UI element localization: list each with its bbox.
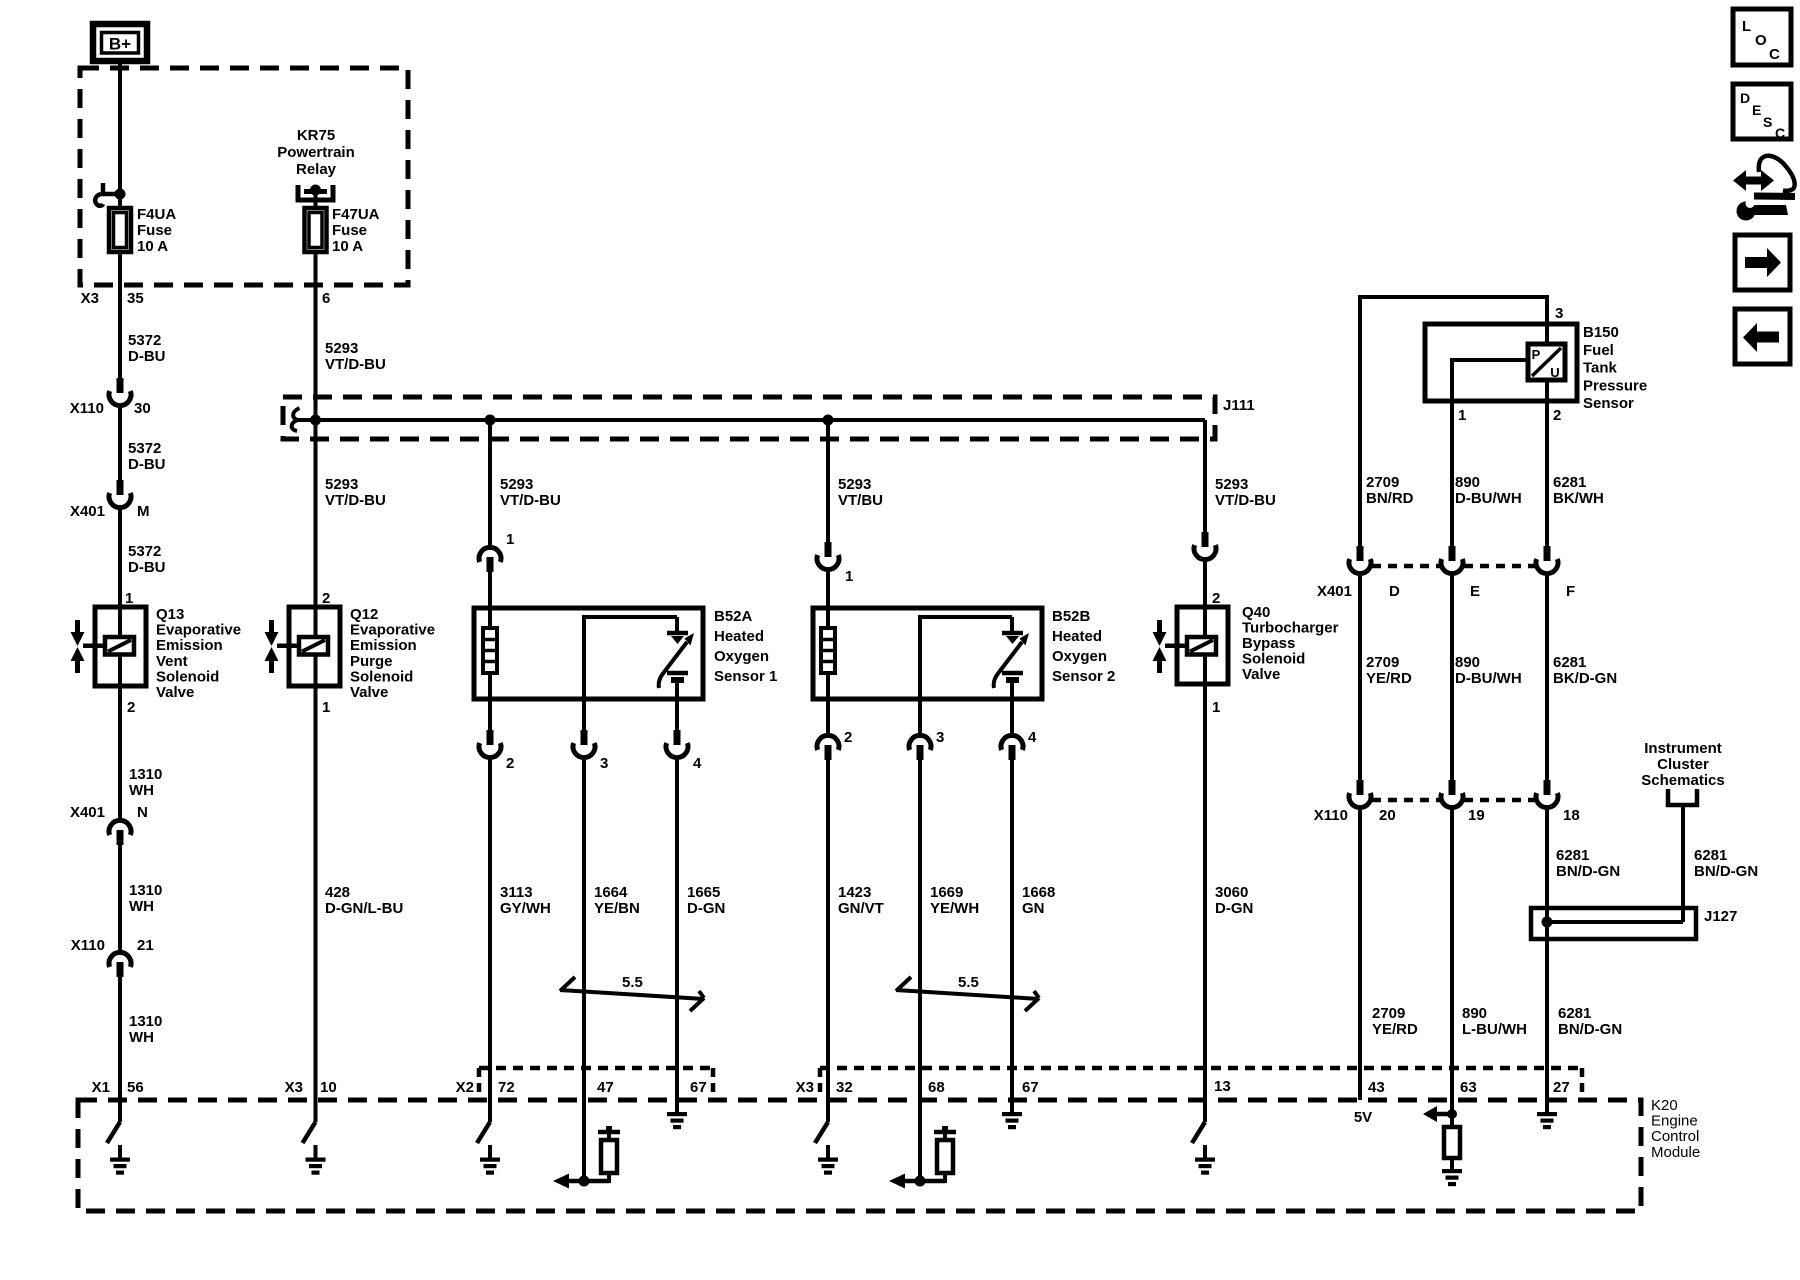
ECM internal switch to ground (pin 32): [826, 1100, 830, 1122]
svg-text:5293: 5293: [1215, 476, 1248, 493]
connector X401 pin M: [117, 480, 124, 495]
svg-text:D-BU: D-BU: [128, 456, 166, 473]
svg-text:O: O: [1755, 32, 1767, 49]
B52A sense cell symbol: [667, 631, 688, 636]
svg-text:Fuse: Fuse: [332, 222, 367, 239]
connector X401 pin E: [1449, 546, 1456, 561]
svg-text:6281: 6281: [1556, 847, 1589, 864]
J111 internal bus wire: [297, 418, 1205, 422]
svg-text:WH: WH: [129, 782, 154, 799]
wire 1664 YE/BN B52A-3 to ECM 47: [582, 759, 586, 1100]
svg-text:X1: X1: [92, 1079, 110, 1096]
svg-text:5372: 5372: [128, 440, 161, 457]
svg-text:6281: 6281: [1694, 847, 1727, 864]
B150 internal wiring pin 1: [1450, 358, 1454, 401]
junction dot KR75 feed: [310, 415, 321, 426]
wires X110 down to ECM: [1358, 809, 1362, 1100]
svg-text:2: 2: [1212, 590, 1220, 607]
wires X401 to X110: [1358, 575, 1362, 780]
fuse F47UA 10A: [305, 208, 327, 252]
svg-text:D: D: [1389, 583, 1400, 600]
svg-text:2709: 2709: [1372, 1005, 1405, 1022]
svg-text:D: D: [1740, 90, 1750, 106]
svg-text:72: 72: [498, 1079, 515, 1096]
svg-text:X110: X110: [1314, 807, 1348, 824]
svg-text:Q13: Q13: [156, 606, 184, 623]
svg-text:890: 890: [1455, 474, 1480, 491]
junction dot B52B branch: [823, 415, 834, 426]
svg-text:5293: 5293: [325, 340, 358, 357]
svg-text:Evaporative: Evaporative: [350, 622, 435, 639]
ECM internal switch to ground (pin 72): [488, 1100, 492, 1122]
ECM internal 5V ref resistor to ground (pin 63): [1450, 1100, 1454, 1127]
svg-text:6281: 6281: [1553, 654, 1586, 671]
svg-text:2709: 2709: [1366, 474, 1399, 491]
connector X110 pin 30: [117, 378, 124, 393]
svg-text:2: 2: [844, 729, 852, 746]
svg-text:VT/D-BU: VT/D-BU: [325, 492, 386, 509]
svg-text:Fuel: Fuel: [1583, 342, 1614, 359]
ECM internal ground (pin 27): [1545, 1100, 1549, 1113]
svg-text:Valve: Valve: [350, 684, 388, 701]
svg-text:3: 3: [1555, 305, 1563, 322]
icon vehicle data double arrow: [1744, 177, 1764, 185]
X401 row dashed links: [1372, 564, 1440, 569]
svg-text:VT/D-BU: VT/D-BU: [1215, 492, 1276, 509]
svg-text:Emission: Emission: [156, 637, 223, 654]
module K20 engine control module (dashed): [78, 1100, 1641, 1211]
svg-text:5V: 5V: [1354, 1109, 1372, 1126]
svg-text:GY/WH: GY/WH: [500, 900, 551, 917]
svg-text:D-GN: D-GN: [687, 900, 725, 917]
solenoid Q12 evaporative emission purge solenoid valve: [289, 607, 340, 686]
svg-text:5.5: 5.5: [958, 974, 979, 991]
B52B sense cell symbol: [1002, 631, 1023, 636]
svg-text:1310: 1310: [129, 766, 162, 783]
connector B52B pin 3: [918, 699, 922, 734]
relay KR75 contact bracket: [298, 185, 333, 200]
twisted pair marker 5.5 (B52B): [896, 990, 1039, 999]
icon forward arrow box: [1735, 235, 1790, 290]
ECM internal switch to ground (pin 56): [118, 1100, 122, 1122]
svg-text:6281: 6281: [1558, 1005, 1591, 1022]
svg-text:D-GN/L-BU: D-GN/L-BU: [325, 900, 403, 917]
svg-text:5293: 5293: [838, 476, 871, 493]
wire 5293 VT/D-BU fuse F47UA to J111: [314, 252, 318, 397]
svg-text:L: L: [1742, 18, 1751, 35]
svg-text:Turbocharger: Turbocharger: [1242, 620, 1339, 637]
svg-text:B52A: B52A: [714, 608, 753, 625]
splice pack J111 (dashed): [283, 397, 1215, 439]
svg-text:2: 2: [127, 699, 135, 716]
svg-text:Valve: Valve: [156, 684, 194, 701]
svg-text:U: U: [1550, 365, 1559, 380]
wire 1665 D-GN B52A-4 to ECM 67: [675, 759, 679, 1100]
svg-text:1: 1: [1458, 407, 1466, 424]
svg-text:2: 2: [1553, 407, 1561, 424]
ECM internal ground (pin 67): [675, 1100, 679, 1113]
svg-text:1310: 1310: [129, 882, 162, 899]
svg-text:35: 35: [127, 290, 144, 307]
wire 1310 WH X110 to ECM X1 56: [118, 977, 122, 1100]
wire 5293 VT/D-BU J111 to Q40: [1203, 420, 1207, 532]
solenoid Q40 turbocharger bypass solenoid valve: [1177, 607, 1228, 684]
svg-text:B150: B150: [1583, 324, 1619, 341]
solenoid Q13 evaporative emission vent solenoid valve: [95, 607, 146, 686]
svg-text:3: 3: [600, 755, 608, 772]
svg-text:13: 13: [1214, 1078, 1231, 1095]
svg-text:30: 30: [134, 400, 151, 417]
svg-text:2709: 2709: [1366, 654, 1399, 671]
wire 5372 D-BU X401 to Q13: [118, 509, 122, 607]
svg-text:GN/VT: GN/VT: [838, 900, 884, 917]
icon back arrow box: [1735, 309, 1790, 364]
J111 splice squiggle: [292, 408, 300, 431]
svg-text:YE/RD: YE/RD: [1366, 670, 1412, 687]
svg-text:27: 27: [1553, 1079, 1570, 1096]
svg-text:X3: X3: [285, 1079, 303, 1096]
svg-text:1: 1: [506, 531, 514, 548]
fuse F4UA 10A: [109, 208, 131, 252]
svg-text:BK/WH: BK/WH: [1553, 490, 1604, 507]
wire relay to fuse F47UA: [314, 190, 318, 208]
svg-text:Cluster: Cluster: [1657, 756, 1709, 773]
svg-text:5293: 5293: [500, 476, 533, 493]
splice tap in fuse block: [101, 183, 106, 193]
svg-text:10: 10: [320, 1079, 337, 1096]
svg-text:56: 56: [127, 1079, 144, 1096]
svg-text:Fuse: Fuse: [137, 222, 172, 239]
svg-text:BK/D-GN: BK/D-GN: [1553, 670, 1617, 687]
svg-text:3060: 3060: [1215, 884, 1248, 901]
svg-text:M: M: [137, 503, 150, 520]
svg-text:18: 18: [1563, 807, 1580, 824]
svg-text:C: C: [1775, 125, 1785, 141]
svg-text:F: F: [1566, 583, 1575, 600]
svg-text:BN/D-GN: BN/D-GN: [1694, 863, 1758, 880]
wire 5372 D-BU fuse to X110: [118, 252, 122, 378]
svg-text:890: 890: [1462, 1005, 1487, 1022]
svg-text:D-BU: D-BU: [128, 348, 166, 365]
svg-text:Solenoid: Solenoid: [1242, 651, 1305, 668]
svg-text:Q12: Q12: [350, 606, 378, 623]
twisted pair marker 5.5 (B52A): [560, 990, 704, 999]
B52A sense cell internal wiring: [582, 615, 586, 699]
svg-text:Sensor 2: Sensor 2: [1052, 668, 1115, 685]
B52B sense cell internal wiring: [918, 615, 922, 699]
svg-text:Engine: Engine: [1651, 1113, 1698, 1130]
svg-text:K20: K20: [1651, 1097, 1678, 1114]
svg-text:Vent: Vent: [156, 653, 188, 670]
B52A heater element: [488, 608, 492, 628]
icon vehicle outline: [1759, 156, 1795, 191]
svg-text:J111: J111: [1223, 397, 1255, 414]
svg-text:Oxygen: Oxygen: [714, 648, 769, 665]
wire 5293 VT/D-BU J111 to B52A pin 1: [488, 420, 492, 546]
wire 6281 top run to B150 pin 3: [1358, 295, 1362, 546]
svg-text:X401: X401: [70, 804, 105, 821]
svg-text:3: 3: [936, 729, 944, 746]
connector in-line B52B pin 1: [825, 542, 832, 557]
wire 428 D-GN/L-BU Q12 to ECM X3 10: [314, 686, 318, 1100]
svg-text:X401: X401: [1317, 583, 1352, 600]
svg-text:32: 32: [836, 1079, 853, 1096]
connector X110 pin 21: [109, 952, 131, 967]
wire 890 D-BU/WH B150-1 to X401 E: [1450, 401, 1454, 546]
ECM internal pull-up resistor (pin 68): [918, 1100, 922, 1183]
svg-text:D-BU: D-BU: [128, 559, 166, 576]
svg-text:F47UA: F47UA: [332, 206, 380, 223]
connector B52A pin 3: [582, 699, 586, 730]
wire 5372 D-BU X110 to X401: [118, 407, 122, 480]
splice J127 box: [1531, 908, 1696, 939]
svg-text:67: 67: [1022, 1079, 1039, 1096]
svg-text:1: 1: [845, 568, 853, 585]
connector B52A pin 2: [488, 699, 492, 730]
svg-text:BN/RD: BN/RD: [1366, 490, 1414, 507]
B52B heater element: [821, 628, 835, 673]
svg-text:Instrument: Instrument: [1644, 740, 1722, 757]
svg-text:5293: 5293: [325, 476, 358, 493]
wires J127 to ECM pins: [1545, 939, 1549, 1100]
underhood fuse block (dashed): [80, 68, 408, 285]
svg-text:Tank: Tank: [1583, 360, 1618, 377]
svg-text:1665: 1665: [687, 884, 720, 901]
svg-text:1423: 1423: [838, 884, 871, 901]
svg-text:4: 4: [693, 755, 702, 772]
connector in-line Q40 feed: [1202, 532, 1209, 547]
svg-text:3113: 3113: [500, 884, 533, 901]
svg-text:X110: X110: [70, 400, 104, 417]
svg-text:1669: 1669: [930, 884, 963, 901]
svg-text:N: N: [137, 804, 148, 821]
wire 6281 BN/D-GN cluster to J127: [1681, 805, 1685, 922]
svg-text:1: 1: [322, 699, 330, 716]
sensor B52B heated oxygen sensor 2 box: [813, 608, 1042, 699]
svg-text:890: 890: [1455, 654, 1480, 671]
svg-text:Pressure: Pressure: [1583, 377, 1647, 394]
node B+ battery feed: [93, 24, 147, 61]
svg-text:19: 19: [1468, 807, 1485, 824]
svg-text:P: P: [1532, 347, 1541, 362]
svg-text:X3: X3: [796, 1079, 814, 1096]
connector X2 dotted outline: [479, 1066, 713, 1071]
svg-text:21: 21: [137, 937, 154, 954]
svg-text:C: C: [1769, 46, 1780, 63]
connector X401 pin F: [1544, 546, 1551, 561]
svg-text:5.5: 5.5: [622, 974, 643, 991]
svg-text:D-BU/WH: D-BU/WH: [1455, 670, 1522, 687]
svg-text:Q40: Q40: [1242, 604, 1270, 621]
svg-text:B+: B+: [109, 35, 131, 54]
svg-text:Module: Module: [1651, 1144, 1700, 1161]
svg-text:Control: Control: [1651, 1128, 1699, 1145]
ECM internal ground (pin 67b): [1010, 1100, 1014, 1113]
svg-text:GN: GN: [1022, 900, 1045, 917]
svg-text:1: 1: [125, 590, 133, 607]
svg-text:Relay: Relay: [296, 161, 337, 178]
svg-text:47: 47: [597, 1079, 614, 1096]
svg-text:Powertrain: Powertrain: [277, 144, 355, 161]
svg-text:Heated: Heated: [1052, 628, 1102, 645]
svg-text:2: 2: [322, 590, 330, 607]
svg-text:68: 68: [928, 1079, 945, 1096]
svg-text:1: 1: [1212, 699, 1220, 716]
wire 1310 WH Q13 to X401 N: [118, 686, 122, 819]
svg-text:VT/BU: VT/BU: [838, 492, 883, 509]
wire 3113 GY/WH B52A-2 to ECM X2 72: [488, 759, 492, 1100]
svg-text:4: 4: [1028, 729, 1037, 746]
connector X110 pin 19: [1449, 780, 1456, 795]
J127 internal bus: [1547, 920, 1683, 924]
wire 3060 D-GN Q40 to ECM 13: [1203, 684, 1207, 1100]
svg-text:20: 20: [1379, 807, 1396, 824]
svg-text:Valve: Valve: [1242, 666, 1280, 683]
svg-text:YE/WH: YE/WH: [930, 900, 979, 917]
svg-text:X110: X110: [71, 937, 105, 954]
svg-text:D-BU/WH: D-BU/WH: [1455, 490, 1522, 507]
svg-text:E: E: [1470, 583, 1480, 600]
wire 5293 VT/BU J111 to B52B pin 1: [826, 420, 830, 542]
icon DESC box: [1733, 84, 1791, 139]
ECM internal pull-up resistor (pin 47): [582, 1100, 586, 1183]
svg-text:6: 6: [322, 290, 330, 307]
svg-text:67: 67: [690, 1079, 707, 1096]
svg-text:Solenoid: Solenoid: [156, 668, 219, 685]
connector B52A pin 4: [675, 699, 679, 730]
svg-text:Evaporative: Evaporative: [156, 622, 241, 639]
connector X110 pin 18: [1544, 780, 1551, 795]
icon wrench: [1751, 205, 1786, 215]
svg-text:X3: X3: [81, 290, 99, 307]
svg-text:428: 428: [325, 884, 350, 901]
svg-text:Sensor: Sensor: [1583, 395, 1634, 412]
connector X401 pin N: [109, 820, 131, 835]
svg-text:10 A: 10 A: [332, 238, 363, 255]
svg-text:Emission: Emission: [350, 637, 417, 654]
svg-text:Purge: Purge: [350, 653, 393, 670]
svg-text:10 A: 10 A: [137, 238, 168, 255]
junction dot B52A branch: [485, 415, 496, 426]
svg-text:Bypass: Bypass: [1242, 635, 1295, 652]
svg-text:F4UA: F4UA: [137, 206, 176, 223]
connector X401 pin D: [1357, 546, 1364, 561]
svg-text:X401: X401: [70, 503, 105, 520]
svg-text:VT/D-BU: VT/D-BU: [325, 356, 386, 373]
ECM internal switch to ground (pin 13): [1203, 1100, 1207, 1122]
svg-text:YE/BN: YE/BN: [594, 900, 640, 917]
svg-text:63: 63: [1460, 1079, 1477, 1096]
connector B52B pin 4: [1010, 699, 1014, 734]
svg-text:1668: 1668: [1022, 884, 1055, 901]
ECM internal switch to ground (pin 10): [314, 1100, 318, 1122]
svg-text:D-GN: D-GN: [1215, 900, 1253, 917]
svg-text:1664: 1664: [594, 884, 628, 901]
svg-text:5372: 5372: [128, 332, 161, 349]
svg-text:VT/D-BU: VT/D-BU: [500, 492, 561, 509]
connector X3 dotted outline: [820, 1066, 1582, 1071]
svg-text:BN/D-GN: BN/D-GN: [1556, 863, 1620, 880]
sensor B52A heated oxygen sensor 1 box: [474, 608, 703, 699]
svg-text:Solenoid: Solenoid: [350, 668, 413, 685]
B150 P/U transducer symbol: [1528, 344, 1565, 380]
X110 row dashed links: [1372, 798, 1440, 803]
wire B+ to fuse F4UA: [118, 61, 122, 208]
svg-text:Oxygen: Oxygen: [1052, 648, 1107, 665]
svg-text:BN/D-GN: BN/D-GN: [1558, 1021, 1622, 1038]
svg-text:Heated: Heated: [714, 628, 764, 645]
svg-text:S: S: [1763, 114, 1772, 130]
svg-text:WH: WH: [129, 1029, 154, 1046]
svg-text:WH: WH: [129, 898, 154, 915]
svg-text:X2: X2: [456, 1079, 474, 1096]
wire J111 through to Q12: [314, 397, 318, 607]
svg-text:KR75: KR75: [297, 127, 335, 144]
svg-text:B52B: B52B: [1052, 608, 1091, 625]
B150 pin 2 wire: [1545, 380, 1549, 546]
svg-text:43: 43: [1368, 1079, 1385, 1096]
svg-text:J127: J127: [1704, 908, 1737, 925]
svg-text:2: 2: [506, 755, 514, 772]
connector B52B pin 2: [826, 699, 830, 734]
svg-text:L-BU/WH: L-BU/WH: [1462, 1021, 1527, 1038]
svg-text:5372: 5372: [128, 543, 161, 560]
svg-text:E: E: [1752, 102, 1761, 118]
svg-text:1310: 1310: [129, 1013, 162, 1030]
svg-text:YE/RD: YE/RD: [1372, 1021, 1418, 1038]
icon LOC box: [1733, 9, 1791, 65]
wire 1310 WH X401 to X110 21: [118, 845, 122, 951]
connector in-line B52A pin 1: [479, 547, 501, 562]
svg-text:Sensor 1: Sensor 1: [714, 668, 777, 685]
svg-text:Schematics: Schematics: [1641, 772, 1724, 789]
connector X110 pin 20: [1357, 780, 1364, 795]
svg-text:6281: 6281: [1553, 474, 1586, 491]
sensor B150 fuel tank pressure sensor box: [1425, 324, 1577, 401]
